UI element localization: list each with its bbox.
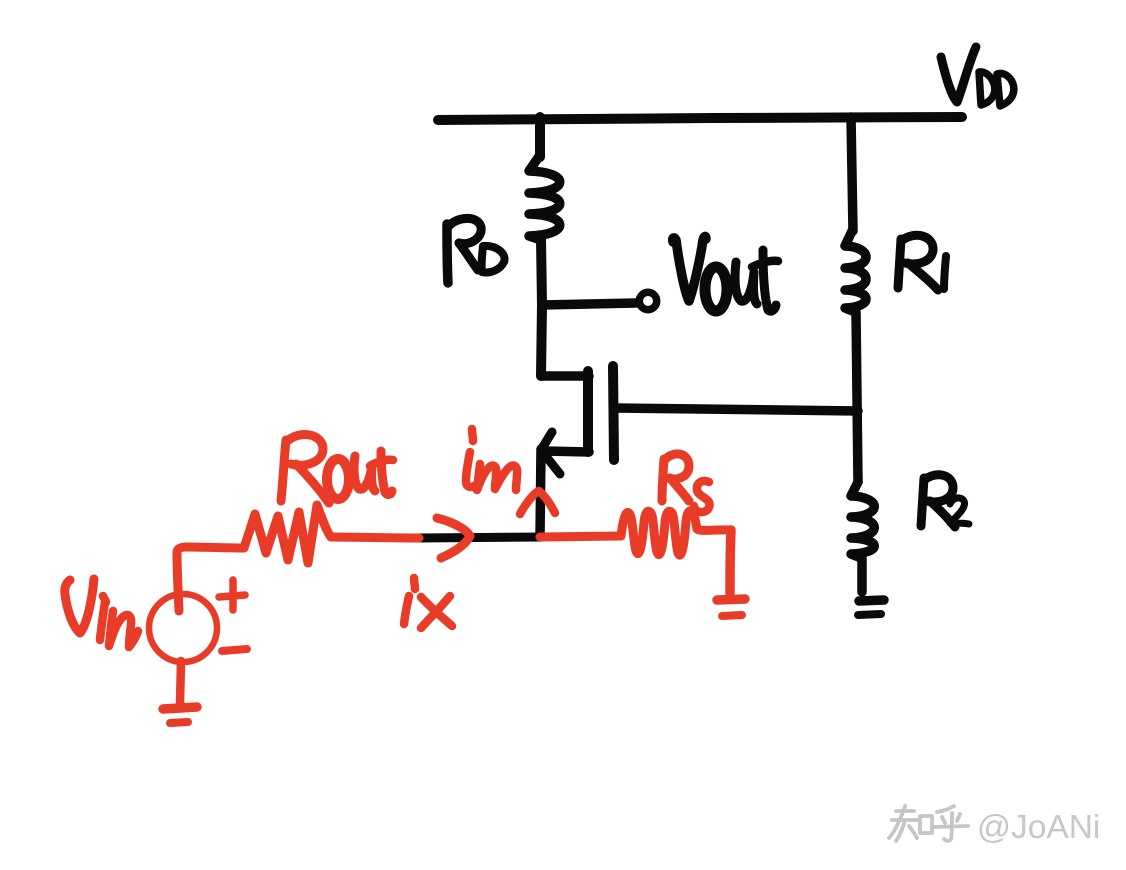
svg-text:@JoANi: @JoANi: [977, 809, 1100, 846]
